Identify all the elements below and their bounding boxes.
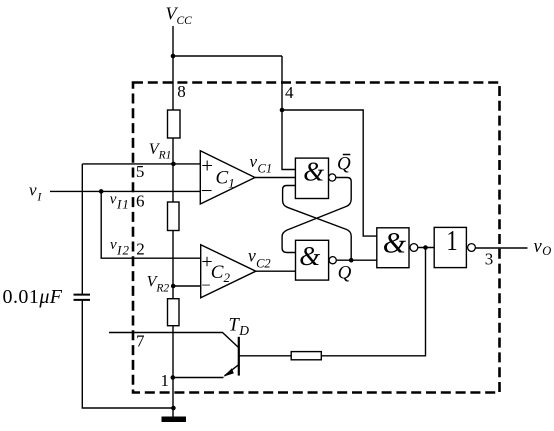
svg-text:6: 6 bbox=[136, 191, 145, 210]
svg-text:vI: vI bbox=[29, 181, 43, 204]
svg-text:5: 5 bbox=[136, 162, 145, 181]
svg-text:VCC: VCC bbox=[166, 4, 193, 27]
svg-text:VR1: VR1 bbox=[149, 141, 172, 162]
svg-text:VR2: VR2 bbox=[147, 274, 170, 295]
svg-text:vI2: vI2 bbox=[110, 237, 130, 258]
svg-text:7: 7 bbox=[136, 331, 145, 350]
svg-text:vC2: vC2 bbox=[248, 245, 271, 270]
svg-text:Q: Q bbox=[337, 154, 351, 175]
svg-text:+: + bbox=[201, 153, 213, 177]
svg-text:−: − bbox=[201, 179, 213, 203]
svg-text:1: 1 bbox=[446, 224, 457, 256]
svg-text:&: & bbox=[299, 241, 320, 271]
svg-text:2: 2 bbox=[136, 240, 145, 259]
svg-text:−: − bbox=[201, 276, 210, 295]
svg-text:vO: vO bbox=[534, 237, 552, 258]
svg-text:TD: TD bbox=[229, 315, 250, 338]
svg-text:&: & bbox=[303, 156, 324, 186]
svg-text:0.01μF: 0.01μF bbox=[3, 286, 63, 308]
svg-text:3: 3 bbox=[485, 250, 494, 269]
svg-text:vI1: vI1 bbox=[110, 192, 130, 212]
svg-text:1: 1 bbox=[161, 371, 170, 390]
svg-text:8: 8 bbox=[177, 82, 186, 101]
svg-text:Q: Q bbox=[338, 262, 352, 283]
svg-text:vC1: vC1 bbox=[250, 152, 273, 175]
svg-text:4: 4 bbox=[285, 83, 294, 102]
svg-text:&: & bbox=[383, 226, 407, 259]
